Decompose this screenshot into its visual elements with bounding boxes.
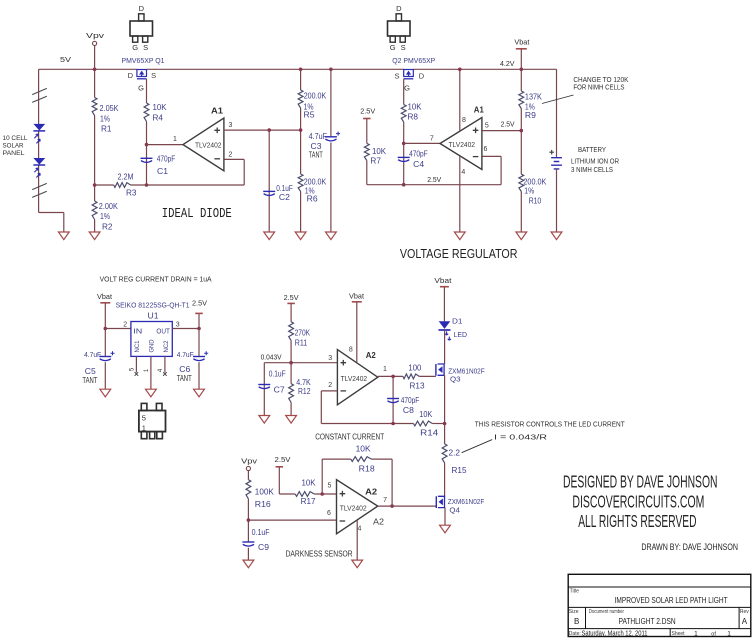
svg-text:Document number: Document number [589,609,624,615]
wire C2 vertical [268,130,270,232]
wire 2.5V down to R17 [279,467,295,494]
node R14/Q3-source/R15 junction [443,422,447,426]
svg-text:A: A [742,617,748,626]
resistor R12 [289,378,312,403]
wire R7 to return corner [366,161,368,185]
credit DRAWN BY: DAVE JOHNSON [641,542,738,553]
wire R6 to ground [300,192,302,233]
note THIS RESISTOR CONTROLS THE LED CURRENT [475,419,625,441]
wire rail corner to battery [556,69,558,157]
svg-text:2.5V: 2.5V [501,119,515,128]
svg-text:0.1uF: 0.1uF [276,184,293,193]
svg-text:4.7uF: 4.7uF [309,132,328,141]
resistor R9 [519,69,543,120]
wire R18 loop left [322,459,351,494]
svg-text:D: D [419,72,425,81]
wire battery to ground [556,169,558,232]
svg-text:VOLT REG CURRENT DRAIN = 1uA: VOLT REG CURRENT DRAIN = 1uA [100,275,212,284]
svg-text:10K: 10K [408,102,423,111]
wire op-amp pin 7 [404,135,440,143]
svg-text:A1: A1 [474,105,484,115]
wire op-amp A1 pin 1 [147,136,184,145]
ground R12 [286,416,297,424]
wire R1 to R2 [94,116,96,202]
svg-text:PANEL: PANEL [3,150,25,157]
svg-text:R2: R2 [102,222,113,231]
svg-text:6: 6 [327,510,331,517]
svg-text:Vbat: Vbat [349,291,365,300]
wire Vpv down [94,46,96,98]
wire R4 to node [146,122,148,145]
transistor Q2 PMV65XP [392,56,435,93]
wire top rail Q1-to-Q2 segment [147,68,404,70]
svg-text:1: 1 [727,630,731,637]
wire Q1 gate to R4 [146,79,148,103]
title block frame [568,574,751,636]
net flag Vpv at R16 [241,456,257,470]
node R17/R18 junction [320,492,324,496]
ground C2 [264,232,275,240]
wire Vpv to R16 [247,471,249,480]
power flag 2.5V at R17 [275,455,291,467]
label CONSTANT CURRENT [315,432,384,441]
resistor R8 [401,102,422,122]
svg-text:G: G [404,84,410,93]
svg-text:S: S [143,43,148,52]
ground R6 [295,232,306,240]
svg-text:R15: R15 [452,466,468,475]
svg-text:2.5V: 2.5V [275,455,291,464]
svg-text:7: 7 [383,497,387,504]
svg-text:10K: 10K [153,103,168,112]
svg-text:2.5V: 2.5V [360,106,375,115]
node R1/R2/R3 junction [93,183,97,187]
resistor R2 [92,201,118,231]
resistor R11 [289,322,311,348]
svg-text:470pF: 470pF [409,149,428,158]
svg-text:R11: R11 [295,339,308,348]
wire R16 to node [247,499,249,542]
op-amp A2 (constant current) TLV2402 [337,350,377,405]
svg-text:FOR NIMH CELLS: FOR NIMH CELLS [573,83,624,92]
svg-text:2.5V: 2.5V [284,293,299,302]
resistor R1 [92,98,119,134]
svg-text:C1: C1 [157,167,169,176]
wire 2.5V return horizontal [367,175,501,185]
wire R15 to Q4 drain [444,463,446,497]
svg-text:PMV65XP Q1: PMV65XP Q1 [122,56,165,65]
svg-text:NC2: NC2 [163,340,170,352]
wire R10 to ground [520,192,522,233]
svg-text:A1: A1 [211,106,223,116]
wire Q3 source down [444,375,446,444]
svg-text:Saturday, March 12, 2011: Saturday, March 12, 2011 [582,630,648,637]
svg-text:NC1: NC1 [134,340,141,352]
U1 pin 4 NC stub [158,356,167,375]
transistor Q1 PMV65XP [122,56,165,93]
wire Vbat to D1 [443,287,445,322]
svg-text:4.7uF: 4.7uF [84,350,101,359]
svg-text:1: 1 [383,366,387,373]
title block Size/Document/Rev row [569,609,749,626]
wire D1 to Q3 drain [444,330,446,364]
svg-text:DISCOVERCIRCUITS.COM: DISCOVERCIRCUITS.COM [572,491,704,511]
svg-text:2: 2 [123,322,127,329]
svg-text:1%: 1% [100,212,110,221]
wire top rail Q2-to-battery segment [413,68,556,70]
svg-text:2.2: 2.2 [449,448,461,457]
svg-text:IN: IN [133,328,142,335]
svg-text:1%: 1% [524,186,534,195]
wire pin 6 feedback [482,146,501,185]
svg-text:CONSTANT CURRENT: CONSTANT CURRENT [315,432,384,441]
svg-text:0.1uF: 0.1uF [252,528,270,537]
ground C5 [100,389,111,397]
resistor R16 [246,480,274,509]
svg-text:S: S [151,71,156,80]
node C4 bottom junction [402,183,406,187]
svg-text:Vpv: Vpv [86,31,104,40]
node R5 top at rail [299,68,303,72]
svg-text:D: D [128,71,134,80]
svg-text:470pF: 470pF [401,396,420,405]
svg-text:GND: GND [149,339,156,352]
resistor R6 [298,174,327,204]
svg-text:5: 5 [328,482,332,489]
ground R10 [516,232,527,240]
svg-text:R13: R13 [410,382,426,391]
capacitor C6 4.7uF TANT [177,329,209,390]
ground battery [551,232,562,240]
svg-text:TLV2402: TLV2402 [341,374,368,383]
svg-text:S: S [401,43,406,52]
capacitor C5 4.7uF TANT [82,329,114,390]
resistor R13 [403,364,425,391]
op-amp A2 (darkness sensor) TLV2402 [337,480,385,534]
power flag Vbat at A2 [349,291,365,302]
svg-text:DRAWN BY: DAVE JOHNSON: DRAWN BY: DAVE JOHNSON [641,542,738,553]
wire R17 to pin 5 [314,482,336,494]
capacitor C8 [387,376,419,423]
credit DISCOVERCIRCUITS.COM [572,491,704,511]
resistor R17 [295,478,316,506]
svg-text:C4: C4 [413,160,425,169]
wire A2 pin 1 output [378,366,403,377]
svg-text:B: B [574,617,579,626]
svg-text:7: 7 [430,135,434,142]
wire op-amp A1 pin 3 output [224,122,301,130]
node C2 tap junction [267,128,271,132]
svg-text:SOLAR: SOLAR [3,143,24,150]
svg-text:10K: 10K [302,478,317,487]
svg-text:TANT: TANT [82,376,97,385]
svg-text:Title: Title [570,589,579,595]
battery BT lithium ion [549,150,561,169]
ground R2 [89,232,100,240]
svg-text:100K: 100K [255,487,275,496]
wire feedback up to pin 2 [224,152,244,186]
capacitor C7 [258,363,285,416]
svg-text:G: G [132,43,138,52]
wire R2 to ground [94,220,96,233]
wire A2 pin 7 output [378,497,437,506]
svg-text:I = 0.043/R: I = 0.043/R [494,433,548,442]
svg-text:G: G [138,84,144,93]
credit DESIGNED BY DAVE JOHNSON [563,472,718,492]
node R16/C9/pin6 junction [247,518,251,522]
svg-text:3: 3 [328,355,332,362]
svg-text:Q3: Q3 [450,374,461,383]
svg-text:IMPROVED SOLAR LED PATH LIGHT: IMPROVED SOLAR LED PATH LIGHT [615,596,728,605]
transistor Q4 ZXM61N02F [436,496,484,514]
svg-text:R7: R7 [370,157,381,166]
SOT-23-5 package drawing for U1 [139,403,166,438]
leader line to R9 [542,95,574,104]
node Vbat at rail [520,68,524,72]
svg-text:TANT: TANT [309,150,323,159]
wire R14 to Q3 source node [432,423,444,425]
wire U1 pin 3 [172,322,199,329]
wire Vbat to U1 pin 2 [104,303,106,329]
svg-text:S: S [394,72,399,81]
resistor R15 [442,444,467,475]
svg-text:200.0K: 200.0K [523,177,547,186]
svg-text:2.2M: 2.2M [118,172,134,181]
wire R3 to feedback corner [131,184,245,186]
svg-text:Rev: Rev [740,609,749,615]
svg-text:1: 1 [142,424,146,433]
wire op-amp pin 4 to ground [460,156,466,232]
svg-text:DARKNESS SENSOR: DARKNESS SENSOR [286,549,353,558]
svg-text:2.5V: 2.5V [192,299,207,308]
svg-text:of: of [711,631,716,637]
svg-text:2.05K: 2.05K [100,104,120,113]
svg-text:10K: 10K [419,410,433,419]
wire Q2 gate to R8 [403,79,405,105]
svg-text:OUT: OUT [156,328,170,335]
svg-text:PATHLIGHT 2.DSN: PATHLIGHT 2.DSN [619,617,676,626]
solar panel cell-break marks top [32,88,47,102]
wire R8 to pin7 node [403,122,405,143]
svg-text:1: 1 [694,630,698,637]
wire 5V top rail left segment [39,68,137,70]
svg-text:0.043V: 0.043V [261,353,282,362]
svg-text:5: 5 [485,123,489,130]
svg-text:C5: C5 [85,367,97,376]
svg-text:D: D [396,4,402,13]
svg-text:C7: C7 [274,385,286,394]
svg-text:LED: LED [454,330,468,339]
svg-text:R18: R18 [359,465,376,474]
resistor R10 [519,174,547,205]
wire R11 to node [290,341,292,384]
net flag Vpv [86,31,104,46]
label VOLTAGE REGULATOR [400,246,518,261]
wire U1 pin 2 [105,322,131,329]
svg-text:1%: 1% [100,115,110,124]
svg-text:6: 6 [483,146,487,153]
svg-text:ALL RIGHTS RESERVED: ALL RIGHTS RESERVED [578,511,696,531]
node pin5/R9/R10 junction [520,129,524,133]
svg-text:5: 5 [142,414,146,423]
ground solar panel [58,232,69,240]
capacitor C4 [398,143,428,184]
U1 pin 1 GND wire [144,356,151,389]
title block Date/Sheet row [569,630,731,637]
photodiode D top of solar panel [33,124,45,143]
resistor R14 [414,410,439,438]
svg-text:Vbat: Vbat [97,292,113,301]
svg-text:R1: R1 [101,125,112,134]
wire R13 to Q3 gate [419,375,436,377]
wire A2 pin 2 feedback [321,382,413,424]
SOT-23 package drawing for Q2 [388,4,411,52]
svg-text:C8: C8 [403,406,415,415]
svg-text:DESIGNED BY DAVE JOHNSON: DESIGNED BY DAVE JOHNSON [563,472,718,492]
capacitor C2 [263,184,293,202]
svg-text:Date:: Date: [569,631,581,637]
capacitor C3 4.7uF TANT [309,69,341,232]
svg-text:G: G [390,43,396,52]
svg-text:10K: 10K [372,147,387,156]
svg-text:TLV2402: TLV2402 [340,504,367,513]
svg-text:A2: A2 [373,518,385,527]
op-amp A1 (ideal diode) TLV2402 [183,106,224,171]
svg-text:U1: U1 [148,312,160,321]
svg-text:2: 2 [228,152,232,159]
svg-text:TLV2402: TLV2402 [449,140,476,149]
wire R3 left [95,184,114,186]
power flag Vbat at U1 [97,292,113,303]
title block Title row [570,589,728,605]
svg-text:100: 100 [408,364,422,373]
wire 0.043V horizontal [261,353,338,363]
svg-text:3: 3 [228,122,232,129]
capacitor C9 [242,528,269,560]
svg-text:5V: 5V [60,55,71,64]
svg-text:THIS RESISTOR CONTROLS THE LED: THIS RESISTOR CONTROLS THE LED CURRENT [475,419,625,428]
capacitor C1 [141,145,176,185]
wire 2.5V to R11 [290,303,292,321]
node pin3/R5/R6 junction [299,128,303,132]
svg-text:470pF: 470pF [157,155,176,164]
net label 5V [60,55,71,64]
resistor R5 [298,69,327,119]
svg-text:A2: A2 [365,486,377,496]
svg-text:R17: R17 [301,497,317,506]
svg-text:Sheet: Sheet [672,631,686,637]
node C1/R3 junction [145,183,149,187]
power flag 2.5V at R11 [284,293,299,304]
node pin8 at rail [458,68,462,72]
svg-text:3: 3 [176,322,180,329]
label VOLT REG CURRENT DRAIN = 1uA [100,275,212,284]
node Vpv-rail junction [93,68,97,72]
note CHANGE TO 120K FOR NIMH CELLS [573,75,628,92]
node pin1/R13/C8 junction [391,375,395,379]
wire A2 pin 4 to ground [357,520,361,560]
label BATTERY [571,145,619,174]
net label 4.2V [500,59,515,68]
resistor R3 [114,172,137,197]
svg-text:Vbat: Vbat [434,276,452,285]
label 10 CELL SOLAR PANEL [3,135,28,157]
svg-text:TANT: TANT [177,374,192,383]
svg-text:R8: R8 [408,113,419,122]
ground C9 [243,560,254,568]
svg-text:Vbat: Vbat [514,38,530,47]
SOT-23 package drawing for Q1 [130,4,153,52]
svg-text:C2: C2 [279,193,291,202]
node pin1/C1 junction [145,143,149,147]
svg-text:Size: Size [569,609,579,615]
svg-text:R14: R14 [420,429,439,438]
transistor Q3 ZXM61N02F [436,364,485,383]
svg-text:200.0K: 200.0K [304,177,327,186]
ground op-amp A1 pin 4 [454,232,465,240]
power flag 2.5V at R7 [360,106,375,118]
svg-text:Q4: Q4 [449,505,460,514]
ground A2 pin 4 [352,560,363,568]
svg-text:4: 4 [358,525,362,532]
ground C6 [194,389,205,397]
node pin7/R8/C4 junction [402,142,406,146]
solar panel cell-break marks bottom [32,183,47,197]
svg-text:R4: R4 [153,113,164,122]
wire op-amp pin 8 power stub [460,69,466,131]
svg-text:2: 2 [328,382,332,389]
svg-text:200.0K: 200.0K [304,92,327,101]
ground Q4 [440,525,451,533]
svg-text:R12: R12 [298,387,311,396]
resistor R4 [144,103,167,122]
wire solar panel vertical [38,69,40,212]
wire R18 loop right [372,459,393,506]
svg-text:137K: 137K [525,93,543,102]
LED D1 [439,316,468,340]
svg-text:A2: A2 [366,350,376,360]
svg-text:Q2 PMV65XP: Q2 PMV65XP [392,56,435,65]
svg-text:4.2V: 4.2V [500,59,515,68]
svg-text:4: 4 [461,169,465,176]
svg-text:R3: R3 [126,188,137,197]
svg-text:D: D [139,4,145,13]
wire op-amp pin 5 input [482,119,521,130]
U1 pin 5 NC stub [130,356,139,375]
svg-text:SEIKO 81225SG-QH-T1: SEIKO 81225SG-QH-T1 [116,301,190,310]
photodiode D bottom of solar panel [33,158,45,178]
svg-text:R9: R9 [525,111,537,120]
wire R5 to R6 [300,108,302,174]
node U1 pin2/C5 junction [104,327,108,331]
wire Q4 source to ground [444,508,446,526]
svg-text:VOLTAGE REGULATOR: VOLTAGE REGULATOR [400,246,518,261]
svg-text:Vpv: Vpv [241,456,257,465]
svg-text:2.5V: 2.5V [427,175,441,184]
svg-text:4.7uF: 4.7uF [177,350,194,359]
svg-text:10 CELL: 10 CELL [3,135,28,142]
node U1 pin3/C6 junction [197,327,201,331]
svg-text:270K: 270K [295,328,311,337]
wire Vbat to rail [520,49,522,70]
leader line to R15 [462,440,493,453]
svg-text:R10: R10 [529,196,542,205]
svg-text:1: 1 [173,136,177,143]
ground U1 GND pin [146,389,157,397]
svg-text:0.1uF: 0.1uF [269,370,286,379]
power flag 2.5V at U1 [192,299,207,329]
svg-text:2.00K: 2.00K [99,202,119,211]
